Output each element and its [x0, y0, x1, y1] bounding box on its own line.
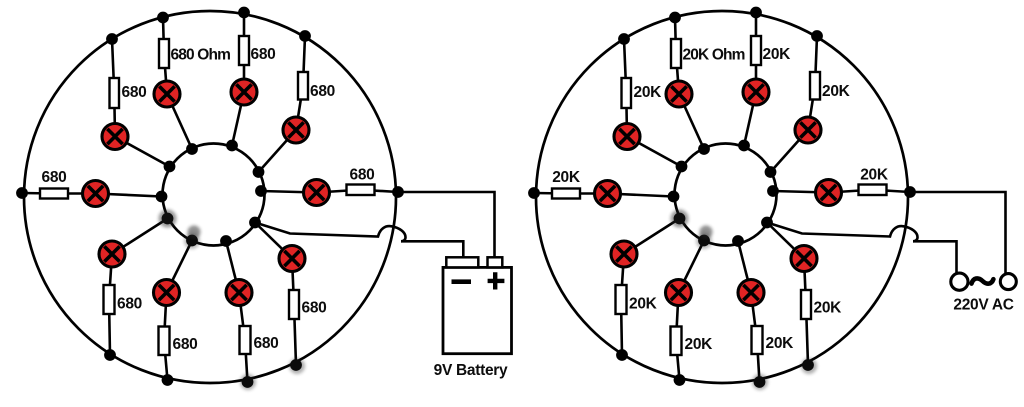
node hub Bn2	[676, 161, 688, 173]
svg-text:20K: 20K	[634, 84, 663, 101]
battery BT1 body	[443, 267, 512, 353]
resistor R9A	[240, 326, 251, 354]
svg-text:680 Ohm: 680 Ohm	[171, 47, 231, 64]
node hub Bn10	[761, 217, 773, 229]
wire AS1b (lamp to hub node)	[96, 194, 162, 197]
node hub Bn9	[732, 235, 744, 247]
node rim BN7	[616, 349, 628, 361]
wire BS9b (lamp to hub node)	[738, 241, 751, 293]
resistor R4A	[239, 36, 249, 65]
resistor R10B	[801, 290, 811, 319]
wire A negative lead with crossover hop	[255, 223, 406, 242]
wire AS2a (rim node to lamp via R)	[112, 39, 115, 137]
wire AS1a (rim node to lamp via R)	[22, 192, 96, 195]
wire BS8a (rim node to lamp via R)	[676, 293, 680, 381]
node hub An6	[255, 185, 267, 197]
lamp LP9B	[738, 280, 764, 306]
wire BS10b (lamp to hub node)	[767, 223, 804, 259]
node rim BN8	[674, 374, 686, 386]
node rim AN2	[106, 33, 118, 45]
wire BS7a (rim node to lamp via R)	[621, 254, 624, 355]
wire BS8b (lamp to hub node)	[679, 241, 705, 293]
svg-text:680: 680	[122, 84, 147, 101]
node hub Bn5	[765, 166, 777, 178]
svg-text:680: 680	[173, 336, 198, 353]
smudge Bc	[696, 233, 712, 249]
node rim BN1	[528, 187, 540, 199]
svg-text:680: 680	[310, 83, 335, 100]
node hub An1	[156, 191, 168, 203]
node rim BN5	[811, 30, 823, 42]
wire BS6a (rim node to lamp via R)	[829, 190, 911, 193]
wire AS10b (lamp to hub node)	[255, 223, 292, 259]
AC source terminal (left)	[951, 273, 968, 290]
wire BS6b (lamp to hub node)	[773, 191, 829, 193]
wire BS3b (lamp to hub node)	[679, 94, 704, 149]
svg-text:20K: 20K	[685, 336, 714, 353]
node rim AN10	[290, 359, 302, 371]
battery BT1 minus sign	[452, 279, 472, 284]
svg-text:20K: 20K	[822, 83, 851, 100]
lamp LP3A	[154, 81, 180, 107]
node rim BN10	[802, 359, 814, 371]
svg-text:20K: 20K	[629, 296, 658, 313]
resistor R7B	[616, 285, 627, 314]
lamp LP10B	[791, 246, 817, 272]
node rim AN6	[392, 186, 404, 198]
svg-text:20K: 20K	[860, 167, 889, 184]
wire BS5b (lamp to hub node)	[771, 130, 809, 172]
wire AS7a (rim node to lamp via R)	[109, 254, 112, 355]
smudge Aa	[159, 210, 177, 228]
resistor R1A	[40, 189, 68, 199]
wire BS4b (lamp to hub node)	[744, 92, 756, 146]
node hub Bn7	[674, 213, 686, 225]
smudge Ad	[240, 374, 256, 390]
svg-text:220V AC: 220V AC	[953, 297, 1013, 314]
svg-text:680: 680	[117, 296, 142, 313]
lamp LP5A	[283, 117, 309, 143]
node hub An10	[249, 217, 261, 229]
node hub Bn3	[698, 143, 710, 155]
node rim AN7	[104, 349, 116, 361]
node hub An7	[162, 213, 174, 225]
node hub An3	[186, 143, 198, 155]
node hub An5	[253, 166, 265, 178]
inner ring A	[163, 144, 265, 246]
resistor R2A	[110, 78, 120, 108]
wire BS3a (rim node to lamp via R)	[675, 18, 679, 95]
lamp LP9A	[226, 280, 252, 306]
lamp LP3B	[666, 81, 692, 107]
lamp LP4A	[231, 79, 257, 105]
resistor R5B	[810, 72, 820, 100]
wire BS10a (rim node to lamp via R)	[804, 259, 808, 366]
node rim BN9	[754, 376, 766, 388]
resistor R6A	[347, 185, 375, 196]
node rim BN2	[618, 33, 630, 45]
wire BS5a (rim node to lamp via R)	[808, 36, 817, 130]
wire AS9b (lamp to hub node)	[226, 241, 239, 293]
node rim AN9	[242, 376, 254, 388]
smudge Ba	[671, 210, 689, 228]
svg-text:20K: 20K	[763, 46, 792, 63]
wire AS6a (rim node to lamp via R)	[317, 190, 399, 193]
resistor R8A	[159, 327, 170, 356]
svg-text:20K: 20K	[814, 300, 843, 317]
wire B lead 1 (rim to AC source)	[910, 192, 1006, 275]
resistor R2B	[622, 78, 632, 108]
lamp LP1B	[595, 181, 621, 207]
AC source terminal (right)	[1000, 274, 1016, 290]
svg-text:680: 680	[350, 167, 375, 184]
battery BT1 plus sign	[488, 272, 505, 289]
svg-text:20K: 20K	[766, 335, 795, 352]
wire AS4a (rim node to lamp via R)	[243, 13, 246, 93]
wire BS2b (lamp to hub node)	[627, 137, 682, 167]
node hub An2	[164, 161, 176, 173]
wire AS9a (rim node to lamp via R)	[239, 293, 248, 383]
lamp LP8A	[154, 280, 180, 306]
battery BT1 positive terminal tab	[488, 257, 503, 267]
svg-text:680: 680	[42, 169, 67, 186]
lamp LP5B	[795, 117, 821, 143]
wire A negative lead (hop to battery -)	[401, 241, 463, 257]
wire AS3a (rim node to lamp via R)	[163, 18, 167, 95]
wire B lead 2 (hop to AC source)	[913, 241, 957, 274]
wire AS5a (rim node to lamp via R)	[296, 36, 305, 130]
smudge Ae	[289, 358, 305, 374]
wire AS6b (lamp to hub node)	[261, 191, 317, 193]
resistor R9B	[752, 326, 763, 354]
svg-text:680: 680	[302, 300, 327, 317]
wire BS2a (rim node to lamp via R)	[624, 39, 627, 137]
battery BT1 negative terminal tab	[446, 257, 478, 267]
resistor R6B	[859, 185, 887, 196]
node rim AN8	[162, 374, 174, 386]
svg-text:20K Ohm: 20K Ohm	[683, 47, 745, 64]
wire AS10a (rim node to lamp via R)	[292, 259, 296, 366]
wire AS3b (lamp to hub node)	[167, 94, 192, 149]
node rim AN4	[238, 7, 250, 19]
lamp LP6B	[816, 180, 842, 206]
lamp LP7A	[99, 241, 125, 267]
wire BS9a (rim node to lamp via R)	[751, 293, 760, 383]
smudge Ab	[188, 226, 201, 239]
wire BS1b (lamp to hub node)	[608, 194, 674, 197]
svg-text:680: 680	[251, 46, 276, 63]
node hub An8	[186, 235, 198, 247]
resistor R3A	[159, 39, 169, 68]
wire B lead 2 with crossover hop	[767, 223, 918, 242]
wire AS8b (lamp to hub node)	[167, 241, 193, 293]
svg-text:680: 680	[254, 335, 279, 352]
node hub Bn6	[767, 185, 779, 197]
AC source sine symbol	[972, 278, 994, 283]
resistor R1B	[552, 189, 580, 199]
smudge Bd	[752, 374, 768, 390]
lamp LP8B	[666, 280, 692, 306]
wire AS5b (lamp to hub node)	[259, 130, 297, 172]
node hub Bn8	[698, 235, 710, 247]
lamp LP2B	[614, 124, 640, 150]
wire AS2b (lamp to hub node)	[115, 137, 170, 167]
resistor R3B	[671, 39, 681, 68]
smudge Be	[801, 358, 817, 374]
node hub An4	[226, 140, 238, 152]
resistor R5A	[298, 72, 308, 100]
resistor R8B	[671, 327, 682, 356]
node rim AN1	[16, 187, 28, 199]
node rim AN3	[157, 12, 169, 24]
wire AS7b (lamp to hub node)	[112, 219, 168, 255]
wire BS4a (rim node to lamp via R)	[755, 13, 758, 93]
node rim BN4	[750, 7, 762, 19]
smudge Ac	[184, 233, 200, 249]
lamp LP10A	[279, 246, 305, 272]
resistor R4B	[751, 36, 761, 65]
wire BS7b (lamp to hub node)	[624, 219, 680, 255]
resistor R10A	[289, 290, 299, 319]
lamp LP2A	[102, 124, 128, 150]
lamp LP7B	[611, 241, 637, 267]
node rim BN6	[904, 186, 916, 198]
wire A positive lead (rim to battery +)	[398, 192, 495, 258]
inner ring B	[675, 144, 777, 246]
node rim BN3	[669, 12, 681, 24]
wire AS8a (rim node to lamp via R)	[164, 293, 168, 381]
smudge Bb	[700, 226, 713, 239]
outer ring B	[536, 11, 908, 383]
wire BS1a (rim node to lamp via R)	[534, 192, 608, 195]
lamp LP4B	[743, 79, 769, 105]
node hub An9	[220, 235, 232, 247]
outer ring A	[24, 11, 396, 383]
node hub Bn1	[668, 191, 680, 203]
svg-text:20K: 20K	[552, 169, 581, 186]
lamp LP6A	[304, 180, 330, 206]
resistor R7A	[104, 285, 115, 314]
svg-text:9V Battery: 9V Battery	[434, 362, 508, 379]
node hub Bn4	[738, 140, 750, 152]
node rim AN5	[299, 30, 311, 42]
wire AS4b (lamp to hub node)	[232, 92, 244, 146]
lamp LP1A	[83, 181, 109, 207]
